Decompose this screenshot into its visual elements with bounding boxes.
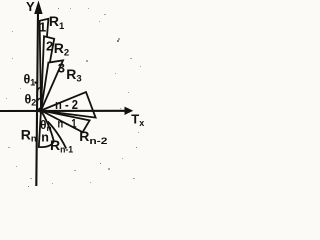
svg-text:3: 3 xyxy=(58,60,65,75)
vector wedge R3 xyxy=(41,60,63,110)
label R1 xyxy=(49,13,65,32)
label 3 xyxy=(58,60,65,75)
Tx axis line xyxy=(0,110,126,112)
label 1 xyxy=(39,19,46,34)
svg-text:n - 1: n - 1 xyxy=(58,116,77,130)
Tx axis arrowhead xyxy=(125,107,134,115)
vector wedge R1 xyxy=(40,19,49,111)
vector wedge Rn-1 xyxy=(41,111,90,133)
label n xyxy=(41,130,49,144)
label n-1 xyxy=(58,116,77,130)
label Tx xyxy=(131,111,144,128)
label n-2 xyxy=(55,98,78,112)
svg-text:n: n xyxy=(41,130,49,144)
svg-text:2: 2 xyxy=(46,39,53,54)
origin junction xyxy=(38,107,43,112)
label theta1 xyxy=(24,73,37,88)
svg-text:Y: Y xyxy=(26,0,35,14)
label Y xyxy=(26,0,35,14)
label 2 xyxy=(46,39,53,54)
label theta-n xyxy=(40,118,52,133)
curved stroke around Rn-1 xyxy=(48,122,66,149)
Y axis line xyxy=(36,12,38,186)
vector wedge Rn-2 xyxy=(41,92,96,118)
label Rn-2 xyxy=(79,128,107,147)
svg-text:1: 1 xyxy=(39,19,46,34)
label theta2 xyxy=(25,92,37,107)
label R3 xyxy=(66,66,81,85)
label R2 xyxy=(54,40,69,59)
vector wedge R2 xyxy=(41,36,54,110)
angle arc theta2 xyxy=(37,98,42,102)
vector wedge Rn xyxy=(39,111,54,148)
label Rn xyxy=(21,126,37,144)
angle arc theta1 xyxy=(37,87,43,92)
Y axis arrowhead xyxy=(34,1,42,15)
svg-text:n - 2: n - 2 xyxy=(55,98,78,112)
label Rn-1 xyxy=(50,137,73,154)
